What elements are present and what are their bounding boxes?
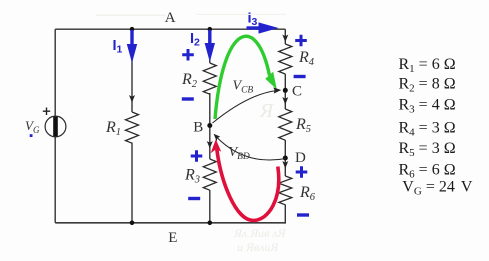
- scan ghost rows below bottom wire (decorative): [233, 226, 287, 254]
- resistor R4: [279, 44, 292, 74]
- thin arrow VBD from D to B: [214, 134, 286, 160]
- wire left lower: [54, 137, 56, 223]
- current arrowhead above R5: [282, 97, 288, 105]
- blue mark under VG: [30, 134, 33, 137]
- svg-text:R2: R2: [181, 71, 198, 90]
- wire R1 branch upper: [131, 29, 133, 112]
- red arc VBD arrow: [211, 139, 279, 220]
- current arrowhead above R4: [282, 35, 288, 43]
- source VG bar: [53, 117, 58, 137]
- svg-text:R1 = 6 Ω: R1 = 6 Ω: [399, 56, 456, 75]
- svg-text:I3: I3: [248, 11, 258, 29]
- plus sign R3: [191, 150, 203, 162]
- node B dot: [207, 123, 212, 128]
- wire R4 to C: [284, 74, 286, 109]
- faint streak top left (decorative): [96, 15, 166, 16]
- current arrow I2: [205, 30, 215, 62]
- svg-text:Яʌ Яив ʌЯ: Яʌ Яив ʌЯ: [233, 226, 287, 240]
- svg-text:R1: R1: [105, 119, 121, 138]
- svg-text:VG = 24V: VG = 24V: [402, 179, 473, 198]
- node dot top R2: [208, 27, 213, 32]
- resistor R5: [279, 109, 292, 140]
- wire R5 to D: [284, 140, 286, 176]
- minus sign R2: [182, 97, 194, 100]
- wire R1 branch lower: [131, 143, 133, 223]
- svg-text:R3 = 4 Ω: R3 = 4 Ω: [399, 96, 456, 115]
- plus sign R6: [296, 166, 308, 178]
- wire right branch upper: [284, 29, 286, 44]
- svg-text:R4: R4: [298, 49, 315, 68]
- minus sign R4: [294, 75, 306, 78]
- wire bottom E rail: [55, 222, 286, 224]
- source VG circle: [45, 116, 66, 137]
- svg-text:R6: R6: [299, 184, 316, 203]
- node dot bottom R1: [130, 221, 135, 226]
- wire R3 lower: [209, 190, 211, 223]
- node C dot: [283, 88, 288, 93]
- svg-text:E: E: [168, 230, 177, 246]
- svg-text:VG: VG: [25, 118, 40, 135]
- current arrowhead above R3: [207, 141, 213, 149]
- svg-text:B: B: [193, 120, 203, 136]
- current arrow I3: [247, 22, 279, 33]
- node D dot: [283, 156, 288, 161]
- resistor R1: [126, 112, 139, 143]
- svg-text:R4 = 3 Ω: R4 = 3 Ω: [399, 119, 456, 138]
- node dot top R1: [130, 27, 135, 32]
- svg-text:C: C: [292, 84, 302, 100]
- svg-text:R3: R3: [184, 167, 200, 186]
- svg-text:VBD: VBD: [229, 145, 250, 162]
- wire top A rail: [55, 28, 285, 30]
- current arrow I1: [127, 30, 137, 63]
- svg-text:I2: I2: [190, 31, 200, 49]
- wire R2 branch upper: [209, 29, 211, 63]
- value list text: [399, 56, 473, 198]
- wire R6 lower: [284, 205, 286, 223]
- svg-text:I1: I1: [113, 38, 123, 56]
- svg-text:R5: R5: [295, 116, 311, 135]
- current arrowhead above R1: [129, 95, 135, 103]
- svg-text:и ЯвʌиЯ: и ЯвʌиЯ: [237, 240, 279, 254]
- plus sign R4: [295, 35, 307, 47]
- minus sign R6: [297, 213, 309, 216]
- source plus sign: [43, 108, 50, 116]
- minus sign R3: [188, 197, 200, 200]
- node dot bottom R3: [208, 221, 213, 226]
- current arrowhead above R6: [282, 161, 288, 169]
- svg-text:Я: Я: [259, 100, 275, 122]
- thin arrow VCB from B to C: [213, 87, 282, 123]
- resistor R6: [279, 176, 292, 205]
- svg-text:R5 = 3 Ω: R5 = 3 Ω: [399, 140, 456, 159]
- svg-text:A: A: [165, 10, 176, 26]
- svg-text:D: D: [295, 150, 306, 166]
- wire R2 to B: [209, 93, 211, 159]
- resistor R2: [203, 63, 216, 94]
- green arc VCB arrow: [215, 36, 277, 119]
- svg-text:VCB: VCB: [233, 79, 254, 96]
- resistor R3: [203, 159, 216, 190]
- svg-text:R2 = 8 Ω: R2 = 8 Ω: [399, 76, 456, 95]
- wire left branch: [54, 29, 56, 116]
- plus sign R2: [182, 49, 194, 61]
